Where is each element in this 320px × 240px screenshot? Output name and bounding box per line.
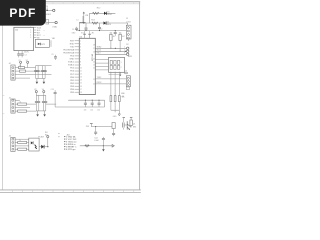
resistor R18 (row4 cluster B) bbox=[18, 110, 37, 112]
power flag F-A1 (cluster A) bbox=[19, 60, 22, 67]
resistor R17 (row2 cluster B) bbox=[18, 103, 37, 105]
svg-text:INT2: INT2 bbox=[97, 53, 101, 55]
svg-text:27: 27 bbox=[93, 48, 95, 50]
svg-text:PD2/INT0/A: PD2/INT0/A bbox=[63, 49, 74, 52]
connector J3 flag symbol bbox=[125, 70, 128, 73]
power flag F-R1 (bottom right) bbox=[123, 118, 126, 121]
cluster B bottom wire bbox=[36, 110, 46, 112]
wire row1 (top rail) bbox=[90, 12, 116, 14]
svg-text:VB1: VB1 bbox=[52, 38, 55, 40]
IC U1 bbox=[14, 27, 34, 50]
svg-text:20: 20 bbox=[93, 84, 95, 86]
resistor R21 (vertical, bottom middle) bbox=[112, 123, 115, 137]
svg-text:XTAL2: XTAL2 bbox=[68, 64, 75, 67]
svg-text:1: 1 bbox=[124, 46, 125, 48]
cluster A exit wire bbox=[45, 65, 52, 67]
resistor R22 (zigzag on WM2) bbox=[85, 145, 89, 147]
svg-text:J4: J4 bbox=[9, 63, 11, 65]
J6 wires bbox=[15, 139, 29, 149]
svg-text:RXD2: RXD2 bbox=[97, 82, 102, 84]
optocoupler U3 bbox=[29, 136, 44, 151]
power flag F-C1 bbox=[47, 136, 49, 147]
svg-text:4k7: 4k7 bbox=[122, 36, 125, 38]
svg-text:3: 3 bbox=[124, 52, 125, 54]
wire row1-row2 link bbox=[89, 13, 91, 23]
capacitor C10 (bus) bbox=[84, 100, 87, 107]
svg-text:1: 1 bbox=[121, 62, 122, 64]
power flag VCC (top middle) bbox=[83, 12, 89, 23]
cluster A bottom wire bbox=[36, 78, 46, 80]
svg-text:21: 21 bbox=[93, 79, 95, 81]
power flag row2 stem bbox=[82, 16, 84, 23]
U2 left pin ladder (18 pins with labels and numbers) bbox=[75, 41, 80, 92]
svg-text:C2: C2 bbox=[24, 55, 26, 57]
capacitor C16 (bottom right) bbox=[123, 120, 125, 129]
wire row2 corner into J2 bbox=[127, 23, 129, 25]
svg-text:Q1: Q1 bbox=[133, 124, 135, 126]
diode D2 (row2) bbox=[104, 21, 112, 26]
svg-text:17: 17 bbox=[80, 89, 82, 91]
connector J4 bbox=[9, 63, 16, 80]
power flag F-B2 (cluster B) bbox=[42, 89, 45, 95]
svg-text:J2: J2 bbox=[126, 18, 128, 20]
resistor R12 (row1) bbox=[92, 7, 100, 14]
svg-text:6 DTR grn: 6 DTR grn bbox=[66, 148, 75, 151]
connector J3 bbox=[126, 76, 130, 87]
resistor R13 (row2) bbox=[91, 19, 98, 24]
wire WM2 bbox=[80, 145, 112, 147]
diode D3 (cluster C) bbox=[39, 145, 48, 149]
capacitor CB2 bbox=[37, 95, 40, 111]
capacitor CA2 bbox=[37, 66, 40, 79]
wire bus2 (below U2) bbox=[57, 106, 105, 108]
wire row2 (mid rail) bbox=[79, 22, 127, 24]
capacitor CB4 bbox=[44, 95, 47, 111]
svg-text:S80: S80 bbox=[133, 126, 136, 128]
junction row2 at power stem bbox=[83, 22, 84, 23]
diode D1 (row1) bbox=[104, 12, 112, 17]
capacitor CB3 bbox=[42, 95, 45, 111]
frame bottom outer line bbox=[0, 191, 141, 193]
capacitor C11 (bus) bbox=[91, 100, 94, 107]
svg-text:RXD: RXD bbox=[70, 44, 75, 46]
svg-text:XTAL1: XTAL1 bbox=[68, 61, 75, 64]
wire bus right link bbox=[104, 100, 106, 107]
svg-text:J5: J5 bbox=[9, 97, 11, 99]
svg-text:SW1: SW1 bbox=[128, 56, 132, 58]
U2 top power pin AVCC bbox=[88, 31, 91, 38]
svg-text:5: 5 bbox=[30, 37, 31, 39]
net label texts (cluster C top) bbox=[45, 132, 48, 136]
svg-text:4: 4 bbox=[80, 50, 81, 52]
frame top inner line bbox=[0, 3, 140, 5]
svg-text:24: 24 bbox=[93, 61, 95, 63]
svg-text:7: 7 bbox=[80, 59, 81, 61]
svg-text:16: 16 bbox=[80, 86, 82, 88]
svg-text:a: a bbox=[44, 30, 45, 32]
J5 wires bbox=[15, 100, 30, 111]
capacitor C9 (left of U2) bbox=[51, 54, 57, 60]
svg-text:GND: GND bbox=[70, 59, 75, 61]
svg-text:PDF: PDF bbox=[9, 6, 36, 20]
resistor R19 (cluster C) bbox=[18, 141, 29, 143]
net SDA wire bbox=[95, 46, 126, 49]
net flag bubble INT bbox=[124, 52, 129, 55]
J2 bottom stub bbox=[127, 39, 129, 41]
svg-text:TXD: TXD bbox=[70, 47, 75, 49]
svg-text:2: 2 bbox=[80, 43, 81, 45]
net RX wire bbox=[95, 82, 126, 84]
svg-text:9: 9 bbox=[80, 65, 81, 67]
resistor R23 (Q1 collector) bbox=[130, 120, 132, 127]
svg-text:26: 26 bbox=[93, 51, 95, 53]
capacitor C13 (bus2 left end) bbox=[51, 89, 57, 107]
svg-text:11: 11 bbox=[80, 71, 82, 73]
ground GA1 bbox=[36, 79, 39, 85]
svg-text:25: 25 bbox=[93, 58, 95, 60]
battery box BT1 side wire bbox=[50, 40, 52, 47]
svg-text:C7: C7 bbox=[100, 29, 102, 31]
node P1 (connector pin right of badge) bbox=[46, 6, 55, 16]
connector J6 bbox=[9, 135, 15, 151]
J4 wires bbox=[15, 68, 51, 79]
svg-text:C5: C5 bbox=[72, 29, 74, 31]
svg-text:V4: V4 bbox=[42, 89, 44, 91]
ground GB2 bbox=[43, 111, 46, 117]
svg-text:SCL2: SCL2 bbox=[97, 50, 102, 52]
junctions bottom rail bbox=[79, 30, 80, 31]
svg-text:18: 18 bbox=[80, 92, 82, 94]
resistor R6 (pull-up) bbox=[119, 33, 125, 52]
power flag F-B1 (cluster B) bbox=[34, 89, 37, 95]
capacitor C15 (above WM2) bbox=[102, 137, 105, 147]
power flag F-R2 (bottom right) bbox=[130, 118, 133, 121]
wire bottom rail (top section) bbox=[76, 30, 126, 32]
net INT wire bbox=[95, 53, 126, 55]
svg-text:MEGA8: MEGA8 bbox=[90, 54, 93, 62]
resistor R15 (row1 cluster A) bbox=[19, 67, 36, 69]
SW1 input stubs from U2 bbox=[95, 60, 108, 70]
resistor R16 (row2 cluster A) bbox=[20, 70, 48, 72]
capacitor C2 (below U1) bbox=[21, 51, 27, 58]
U2 top power pin VCC bbox=[83, 31, 86, 38]
resistor R7 (below SW1) bbox=[110, 72, 112, 111]
cluster B exit wire bbox=[46, 103, 56, 105]
pin header list J10 bbox=[58, 134, 69, 137]
wire WM1 bbox=[91, 126, 112, 128]
capacitor C6 (mid drop) bbox=[85, 23, 88, 31]
svg-text:2: 2 bbox=[121, 67, 122, 69]
svg-text:104: 104 bbox=[90, 109, 93, 111]
U1 right pin stubs with pin numbers and net labels bbox=[30, 26, 44, 39]
svg-text:C9: C9 bbox=[51, 54, 53, 56]
svg-text:XTAL: XTAL bbox=[52, 25, 57, 28]
capacitor bank cluster A top wire bbox=[36, 65, 46, 67]
node P2 (connector pin right of badge) bbox=[46, 20, 57, 29]
svg-text:PD3/INT1/A: PD3/INT1/A bbox=[63, 52, 74, 55]
svg-text:CON4: CON4 bbox=[126, 21, 131, 23]
net flag bubble SDA bbox=[124, 46, 129, 49]
resistor R5 (pull-up) bbox=[110, 33, 116, 49]
svg-text:SDA2: SDA2 bbox=[97, 46, 102, 49]
SW1 common pin arrow bbox=[119, 72, 121, 76]
svg-text:GND1: GND1 bbox=[46, 14, 51, 16]
C14 value text bbox=[94, 137, 99, 142]
svg-text:28: 28 bbox=[93, 45, 95, 47]
svg-text:V3: V3 bbox=[34, 89, 36, 91]
wire joining R7 R8 R9 bbox=[111, 109, 119, 111]
svg-text:R12: R12 bbox=[97, 7, 100, 9]
svg-text:5: 5 bbox=[80, 53, 81, 55]
ground GA2 bbox=[43, 79, 46, 85]
capacitor C14 bbox=[94, 126, 97, 135]
svg-text:SS14: SS14 bbox=[107, 24, 111, 26]
power flag 3V3 (bottom middle) bbox=[86, 124, 93, 128]
svg-text:R13: R13 bbox=[91, 19, 94, 21]
svg-text:104: 104 bbox=[97, 109, 100, 111]
switch array SW1 (grid box) bbox=[109, 56, 133, 73]
svg-text:3: 3 bbox=[80, 46, 81, 48]
svg-text:12: 12 bbox=[80, 74, 82, 76]
bus cap value labels bbox=[84, 109, 100, 111]
svg-text:1: 1 bbox=[80, 40, 81, 42]
svg-text:3V3: 3V3 bbox=[86, 126, 89, 128]
svg-text:10: 10 bbox=[80, 68, 82, 70]
SW1 bottom pin row bbox=[109, 74, 120, 76]
capacitor C1 (below U1) bbox=[17, 51, 20, 58]
frame top outer line bbox=[0, 1, 140, 3]
svg-text:L1: L1 bbox=[77, 20, 79, 22]
capacitor CA1 bbox=[34, 66, 37, 79]
resistor R8 (below SW1) bbox=[114, 72, 116, 113]
svg-text:C14: C14 bbox=[94, 137, 97, 139]
svg-text:14: 14 bbox=[80, 80, 82, 82]
svg-text:PC817: PC817 bbox=[38, 136, 44, 138]
capacitor CB1 bbox=[35, 95, 38, 111]
PDF badge bbox=[0, 0, 46, 26]
wire bus1 (below U2) bbox=[68, 99, 104, 101]
svg-text:V2: V2 bbox=[26, 60, 28, 62]
svg-text:J3: J3 bbox=[125, 70, 127, 72]
J3 bottom label box bbox=[121, 87, 129, 98]
net flag bubble SCL bbox=[124, 49, 129, 52]
svg-text:V1: V1 bbox=[19, 60, 21, 62]
power flag F-A2 (cluster A) bbox=[26, 60, 29, 67]
svg-text:4k7: 4k7 bbox=[113, 36, 116, 38]
net TX wire bbox=[95, 77, 126, 79]
svg-text:J6: J6 bbox=[9, 135, 11, 137]
IC U2 bbox=[79, 37, 95, 95]
svg-text:13: 13 bbox=[80, 77, 82, 79]
net SCL wire bbox=[95, 50, 126, 52]
ground (below SW1 resistors) bbox=[118, 110, 120, 116]
frame bottom zone ticks bbox=[13, 190, 134, 193]
frame left border bbox=[1, 2, 3, 190]
svg-text:a: a bbox=[44, 35, 45, 37]
connector J5 bbox=[9, 97, 15, 113]
svg-text:104: 104 bbox=[84, 109, 87, 111]
capacitor bank cluster B top wire bbox=[36, 94, 46, 96]
frame left zone ticks bbox=[2, 96, 4, 114]
capacitor C5 (left drop) bbox=[72, 23, 79, 31]
capacitor CA3 bbox=[41, 66, 44, 79]
svg-text:8: 8 bbox=[80, 62, 81, 64]
resistor R9 (below SW1) bbox=[118, 72, 120, 111]
capacitor C12 (bus) bbox=[98, 100, 101, 107]
svg-text:2: 2 bbox=[124, 49, 125, 51]
inductor L1 bbox=[77, 20, 86, 23]
battery box BT1 bbox=[35, 39, 49, 47]
ground GB1 bbox=[36, 111, 39, 117]
frame bottom inner line bbox=[0, 189, 141, 191]
svg-text:6: 6 bbox=[80, 56, 81, 58]
svg-text:32kHz: 32kHz bbox=[24, 51, 29, 53]
svg-text:C13: C13 bbox=[51, 89, 54, 91]
svg-text:15: 15 bbox=[80, 83, 82, 85]
svg-text:TXD2: TXD2 bbox=[97, 77, 102, 79]
frame top zone ticks bbox=[53, 2, 134, 4]
capacitor CA4 bbox=[44, 66, 47, 79]
capacitor C8 (drop below rail) bbox=[114, 30, 117, 36]
svg-text:23: 23 bbox=[93, 64, 95, 66]
net arrow flag (WM2 right end) bbox=[112, 145, 114, 148]
resistor R20 (cluster C) bbox=[18, 148, 29, 150]
frame right border bbox=[139, 2, 141, 190]
svg-text:SS14: SS14 bbox=[107, 14, 111, 16]
transistor Q1 bbox=[125, 121, 137, 130]
svg-text:22: 22 bbox=[93, 67, 95, 69]
connector J2 bbox=[126, 18, 131, 39]
U2 right pin numbers bbox=[93, 45, 95, 86]
ground arrow (below WM2) bbox=[102, 146, 105, 152]
capacitor C7 (drop) bbox=[98, 23, 103, 31]
